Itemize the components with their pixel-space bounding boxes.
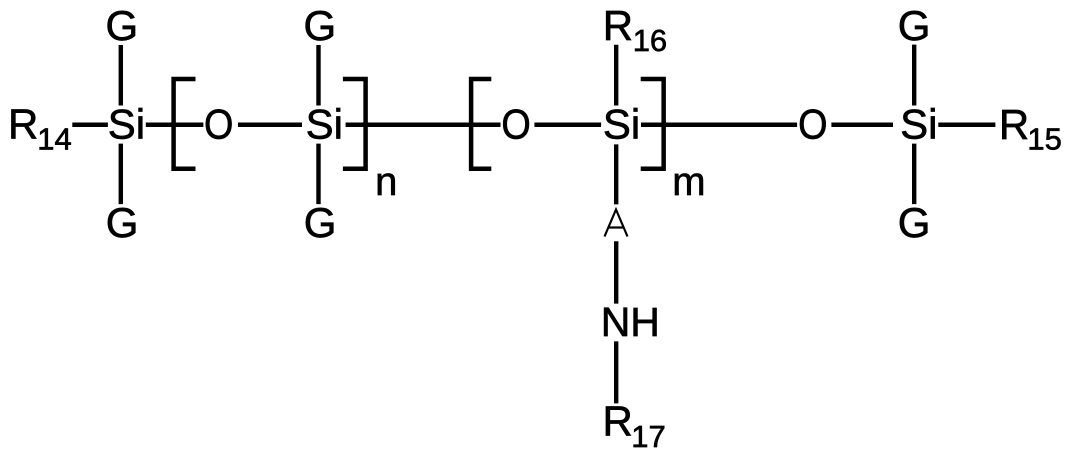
bond O1-Si2 [238,123,302,128]
svg-text:R: R [603,2,633,49]
bond Si3-A [614,144,618,204]
atom label R17 [603,398,666,454]
atom label R16 [603,2,667,58]
atom label O2 [501,102,530,148]
svg-text:14: 14 [37,122,71,157]
bond Si2-bracket-O2 [346,123,501,128]
bond Si4-G bottom [912,144,916,205]
svg-text:Si: Si [108,101,145,148]
bond Si2-G top [316,45,320,106]
bond Si4-R15 [938,123,995,128]
atom label R14 [8,101,72,157]
bond Si4-G top [912,45,916,106]
atom label O1 [204,102,233,148]
svg-text:G: G [304,2,337,49]
bond Si3-O3 [641,123,797,128]
atom label A (thin glyph) [605,210,628,237]
bond Si1-O1 [146,123,204,128]
bracket close m [641,79,664,169]
bond Si1-G top [119,45,123,106]
bond O2-Si3 [534,123,601,128]
bracket close n [343,79,366,169]
svg-text:O: O [501,102,530,148]
svg-text:G: G [304,199,337,246]
svg-text:G: G [106,2,139,49]
svg-text:R: R [603,398,633,445]
atom label O3 [798,102,827,148]
svg-text:Si: Si [306,101,343,148]
svg-text:Si: Si [900,101,937,148]
atom label R15 [999,101,1062,156]
bracket open m [471,79,491,169]
bond R14-Si1 [72,123,108,128]
svg-text:m: m [672,160,705,204]
svg-text:16: 16 [633,23,667,58]
svg-text:NH: NH [601,299,660,345]
bond NH-R17 [614,341,618,403]
svg-text:R: R [999,101,1029,148]
bracket open n [174,79,196,169]
bond O3-Si4 [831,123,893,128]
svg-text:G: G [898,199,931,246]
svg-text:G: G [106,199,139,246]
svg-text:n: n [375,160,397,204]
svg-text:15: 15 [1027,121,1061,156]
bond Si3-R16 [614,45,618,106]
bond A-NH [614,241,618,303]
svg-text:G: G [898,2,931,49]
bond Si2-G bottom [316,144,320,205]
svg-text:O: O [798,102,827,148]
svg-text:O: O [204,102,233,148]
svg-text:17: 17 [631,419,665,454]
svg-text:Si: Si [603,101,640,148]
svg-text:R: R [8,101,38,148]
bond Si1-G bottom [119,144,123,205]
